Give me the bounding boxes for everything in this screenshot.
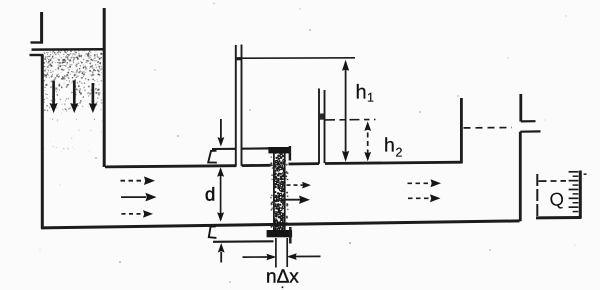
flow arrow C1 dashed <box>408 182 433 184</box>
flow arrow C2 dashed <box>408 197 432 199</box>
beaker top water dashed <box>539 180 567 182</box>
piezometer tube 1 left wall <box>235 45 237 167</box>
plug top right tick <box>289 146 292 161</box>
supply tank left wall upper <box>40 12 43 43</box>
flow arrow B2 solid <box>285 199 302 201</box>
downstream tank left wall <box>460 98 463 164</box>
porous plug column right wall <box>284 149 286 231</box>
ndx dimension left arrow <box>243 256 269 258</box>
downstream tank water level dashed <box>464 127 513 129</box>
pipe top wall segment 4 <box>325 162 461 163</box>
piezometer tube 1 right wall <box>241 45 243 166</box>
tick outside beaker <box>584 173 587 175</box>
inlet top lip <box>31 41 44 43</box>
bottom l dimension arrow <box>220 252 222 263</box>
outlet top lip <box>521 120 536 122</box>
bottom l extension line <box>213 240 274 243</box>
flow arrow A3 dashed <box>122 213 144 215</box>
beaker graduation ticks <box>569 172 579 212</box>
svg-text:1: 1 <box>367 91 374 105</box>
downstream tank right wall upper <box>519 94 522 122</box>
down arrow 3 in tank <box>92 83 95 105</box>
svg-text:nΔx: nΔx <box>266 267 299 288</box>
flow arrow A2 solid <box>121 196 146 198</box>
svg-text:Q: Q <box>548 188 565 211</box>
porous plug column left wall <box>273 149 275 232</box>
d dimension arrow <box>220 169 222 220</box>
h2 dimension arrow <box>367 124 369 158</box>
h1 dimension arrow <box>345 62 347 159</box>
pipe top wall segment 2 <box>242 164 271 167</box>
beaker bottom <box>536 216 582 219</box>
plug bottom flange <box>267 230 293 237</box>
water surface supply tank <box>32 48 104 51</box>
pipe top wall segment 3 <box>289 162 320 165</box>
plug top flange <box>268 147 290 153</box>
inlet bottom lip <box>30 54 44 56</box>
tube 2 meniscus <box>320 114 324 120</box>
down arrow 2 in tank <box>73 81 76 105</box>
bottom l glyph <box>209 226 217 238</box>
supply tank left wall lower <box>41 55 44 229</box>
piezometer tube 2 right wall <box>324 90 326 163</box>
flow arrow B1 dashed <box>287 184 305 186</box>
svg-text:h: h <box>384 135 395 157</box>
flow arrow A1 dashed <box>121 180 145 182</box>
top l glyph <box>208 151 217 163</box>
tube 2 water level dashed line <box>325 119 376 121</box>
outlet bottom lip <box>520 130 540 133</box>
top l dimension arrow <box>220 119 222 138</box>
supply tank right wall <box>103 8 106 167</box>
ndx dimension right arrow <box>295 255 321 257</box>
pipe top wall segment 1 <box>105 166 236 167</box>
porous plug granular texture <box>270 149 288 231</box>
svg-text:2: 2 <box>396 146 403 160</box>
plug bottom right tick <box>289 227 292 244</box>
svg-text:d: d <box>205 184 215 205</box>
piezometer tube 2 left wall <box>318 89 320 164</box>
ndx left extension line <box>275 238 277 268</box>
down arrow 1 in tank <box>52 81 55 105</box>
top l extension line <box>212 148 236 150</box>
pipe bottom wall <box>41 221 520 228</box>
tube 1 meniscus <box>237 57 241 60</box>
water stipple supply tank <box>43 50 103 152</box>
beaker right wall <box>579 171 582 219</box>
tube 1 water level extension line <box>242 57 355 59</box>
beaker left wall dashed <box>536 174 538 218</box>
ndx right extension line <box>286 238 288 267</box>
svg-text:h: h <box>356 82 367 104</box>
downstream tank right wall lower <box>519 132 522 222</box>
